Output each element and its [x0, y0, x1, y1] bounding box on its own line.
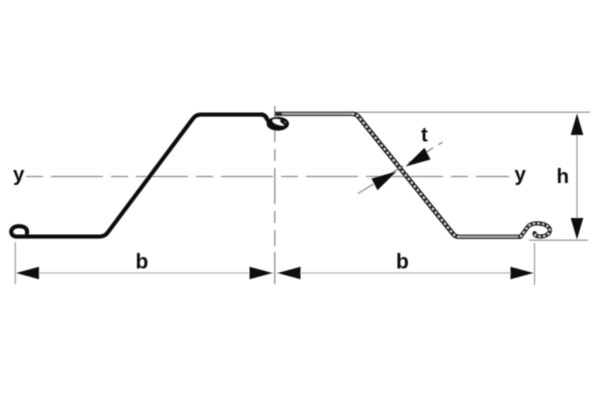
dimension line h: [576, 116, 578, 238]
svg-text:b: b: [136, 251, 149, 274]
leader dash-dot for t: [358, 140, 446, 194]
svg-text:y: y: [13, 163, 25, 186]
dimension line b right: [277, 272, 533, 274]
extension line h bottom: [529, 239, 588, 241]
arrow h bottom: [571, 218, 584, 240]
middle interlock knuckle: [262, 115, 270, 123]
right half top flange (section, double line): [275, 112, 352, 116]
svg-text:b: b: [396, 251, 409, 274]
right half web (section, chained texture): [352, 114, 459, 237]
arrow b-right outer: [511, 267, 534, 280]
right half bottom flange (section, double line): [459, 235, 521, 239]
arrow b-left outer: [16, 267, 39, 280]
arrow b-right inner: [278, 267, 301, 280]
svg-text:t: t: [421, 124, 428, 147]
extension line right b: [534, 243, 536, 285]
left sheet pile half: hook, bottom flange, web, top flange (solid line): [11, 115, 262, 237]
extension line left b: [14, 242, 16, 284]
arrow t lower: [372, 172, 397, 191]
arrow h top: [571, 114, 584, 136]
horizontal centerline y-y: [26, 176, 509, 178]
svg-text:y: y: [515, 163, 527, 186]
extension line h top: [356, 111, 590, 113]
svg-text:h: h: [557, 165, 570, 188]
dimension line b left: [17, 272, 273, 274]
arrow b-left inner: [250, 267, 273, 280]
arrow t upper: [406, 148, 431, 167]
vertical centerline through interlock: [274, 106, 276, 246]
right end hook (curl): [521, 223, 550, 236]
